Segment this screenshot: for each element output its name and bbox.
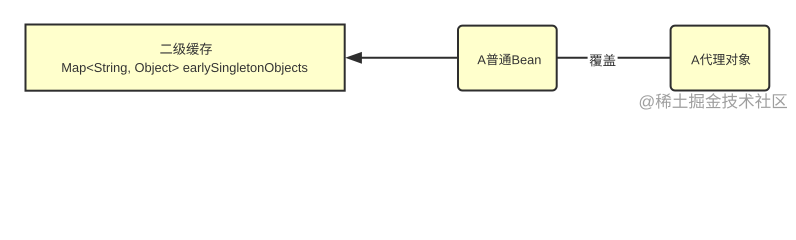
- label background for 覆盖: [588, 51, 618, 68]
- box: 二级缓存 (second-level cache): [26, 25, 345, 91]
- label: Map&lt;String, Object&gt; earlySingletonObjects: [62, 63, 307, 75]
- label: A普通Bean: [477, 53, 540, 65]
- watermark: @稀土掘金技术社区: [640, 93, 787, 109]
- wire: arrow shaft from A普通Bean to 二级缓存: [361, 57, 458, 59]
- label: A代理对象: [691, 53, 750, 65]
- box: A代理对象: [671, 26, 770, 91]
- box: A普通Bean: [458, 26, 557, 91]
- label: 覆盖: [590, 54, 616, 66]
- label: 二级缓存: [160, 43, 212, 55]
- wire: A普通Bean to A代理对象: [557, 57, 671, 59]
- arrowhead pointing left at 二级缓存: [345, 52, 362, 64]
